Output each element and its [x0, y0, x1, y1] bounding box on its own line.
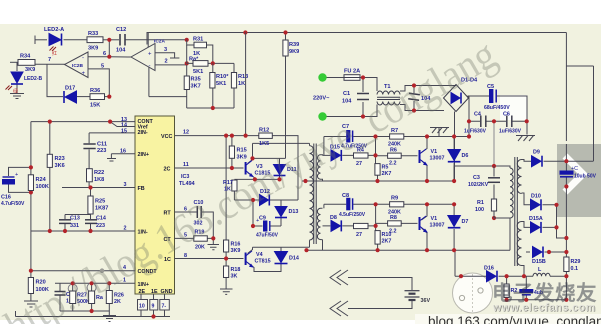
wire pin13 row [31, 121, 135, 123]
wire D11 stems [279, 158, 281, 179]
node rail C17 bottom [564, 184, 568, 188]
node D7 bottom rail [452, 248, 456, 252]
svg-text:IC2A: IC2A [154, 39, 165, 45]
diode D5 [331, 150, 341, 161]
wire pin14 diagonal [110, 122, 135, 127]
svg-text:15: 15 [121, 129, 127, 135]
node VCC c [244, 134, 248, 138]
svg-text:7-: 7- [162, 304, 167, 310]
node ground return [151, 314, 155, 318]
svg-text:4.5uF/250V: 4.5uF/250V [339, 212, 366, 218]
capacitor C8 [347, 198, 353, 210]
svg-text:GND: GND [161, 289, 173, 295]
resistor R26 [106, 291, 112, 304]
choke T1 top winding [377, 91, 400, 94]
pot circle R27 [68, 284, 77, 293]
connector chevron lower [330, 301, 348, 316]
svg-text:C14: C14 [96, 216, 106, 222]
node D6 bottom rail [452, 179, 456, 183]
wire bottom rail [305, 249, 510, 251]
svg-text:1E: 1E [151, 289, 158, 295]
top rail wire [147, 32, 567, 34]
wire bridge bottom drop [454, 112, 456, 182]
wire D14 stems [280, 247, 282, 268]
R39 stems [285, 33, 287, 159]
T2 secondary upper [517, 160, 521, 194]
resistor R5 [375, 164, 380, 176]
node D15B out [547, 250, 551, 254]
resistor R13 [231, 73, 236, 89]
svg-text:5K1: 5K1 [216, 81, 226, 87]
pin7 stem [164, 294, 166, 317]
node D12 row [251, 198, 255, 202]
svg-text:2.2: 2.2 [389, 229, 397, 235]
resistor R34 [18, 60, 35, 66]
ground hatch bridge [430, 128, 449, 134]
capacitor C6 [507, 116, 512, 128]
svg-text:R10*: R10* [216, 74, 229, 80]
wire live row [326, 78, 377, 92]
node C7 out [373, 134, 377, 138]
svg-text:CT815: CT815 [255, 259, 271, 265]
resistor R30 [504, 284, 509, 298]
svg-text:R24: R24 [36, 177, 47, 183]
node rail bottom left [304, 248, 308, 252]
wire V2 collector [422, 204, 428, 220]
node CT [211, 236, 215, 240]
wire R27 stem [72, 283, 74, 311]
node primary bottom [492, 216, 496, 220]
node 1IN- c [88, 229, 92, 233]
svg-text:223: 223 [96, 223, 105, 229]
svg-text:3K: 3K [231, 274, 238, 280]
svg-text:R31: R31 [193, 37, 203, 43]
T3 secondary upper stems [302, 155, 323, 181]
wire primary top row [253, 142, 310, 144]
diode D11 [274, 165, 286, 176]
svg-text:C5: C5 [487, 84, 494, 90]
svg-text:104: 104 [116, 48, 126, 54]
capacitor C13 [59, 220, 71, 224]
svg-text:C4: C4 [474, 112, 481, 118]
diode D12 [260, 195, 270, 206]
wire C11 stem bottom [88, 150, 90, 169]
wire V3 emitter [248, 173, 255, 180]
capacitor C17 [560, 171, 573, 177]
white circle stamp [453, 273, 493, 313]
wire primary bottom [509, 218, 511, 250]
right border step wire [565, 33, 567, 142]
wire Ra1 stem [91, 283, 93, 311]
node bottom row c [564, 298, 568, 302]
wire node6 vertical [108, 40, 110, 57]
pin10 stem [140, 294, 142, 317]
wire D15B row [526, 251, 566, 253]
wire R33 to C12 [103, 39, 119, 41]
battery BT [405, 291, 420, 300]
pin9 stem [153, 294, 155, 317]
svg-text:R16: R16 [231, 242, 241, 248]
resistor Ra1 [89, 291, 95, 304]
svg-text:10ub 50V: 10ub 50V [574, 174, 597, 180]
transistor V3 [246, 161, 253, 177]
resistor R17 [232, 180, 237, 191]
svg-text:5K1: 5K1 [193, 69, 203, 75]
resistor R20 [28, 278, 33, 294]
wire R12 right elbow [272, 136, 298, 200]
resistor R35 [184, 76, 189, 90]
diode D15A [531, 222, 542, 233]
resistor R4 [354, 153, 369, 158]
wire C19 stem [525, 276, 527, 300]
wire C12 to node [126, 39, 187, 41]
svg-text:R33: R33 [88, 31, 98, 37]
wire C4 C6 row [469, 120, 527, 122]
svg-text:www.elecfans.com: www.elecfans.com [492, 302, 596, 314]
svg-text:104: 104 [342, 99, 352, 105]
svg-text:2K7: 2K7 [382, 239, 392, 245]
bridge D1-D4 [444, 85, 469, 112]
diode D7 [448, 216, 461, 228]
wire pin15 row [89, 132, 135, 134]
resistor R39 [283, 40, 288, 56]
wire R6 row [376, 155, 418, 157]
node R5 rail [375, 179, 379, 183]
pin16 mini ground [107, 159, 116, 162]
wire C5 drop to hatch [526, 121, 528, 134]
node pin13 row right [108, 120, 112, 124]
svg-text:1uF/630V: 1uF/630V [464, 129, 487, 135]
node V1 collector top [425, 134, 429, 138]
wire V4 collector [248, 247, 253, 253]
wire battery top link [348, 278, 412, 291]
wire 1IN+ row [55, 282, 135, 284]
svg-text:C3: C3 [473, 175, 480, 181]
wire CT row [175, 237, 214, 239]
node C8 out [374, 202, 378, 206]
wire C13 stem bottom [64, 224, 66, 231]
wire bridge right drop [468, 96, 470, 137]
T3 primary stems [309, 143, 311, 247]
diode D13 [275, 207, 287, 218]
svg-text:220V~: 220V~ [313, 96, 330, 102]
svg-text:3K6: 3K6 [55, 163, 65, 169]
capacitor C1 [357, 94, 369, 100]
wire D15A row elbow [522, 222, 557, 228]
svg-text:R8: R8 [390, 215, 397, 221]
ground R18 [220, 289, 233, 294]
svg-text:红: 红 [52, 50, 57, 57]
node y108 [211, 106, 215, 110]
node primary top [492, 164, 496, 168]
svg-text:3K9: 3K9 [231, 248, 241, 254]
stamp hole A [459, 295, 464, 300]
bridge diode mark [451, 93, 461, 104]
wire secondary bottom drop [522, 266, 525, 277]
capacitor C5 [490, 90, 497, 103]
wire left rail x31 [30, 122, 32, 271]
svg-text:13007: 13007 [430, 156, 445, 162]
wire C7 row [324, 136, 376, 138]
resistor R4b [354, 223, 369, 228]
svg-text:102/2KV: 102/2KV [468, 182, 489, 188]
node D16 in [459, 274, 463, 278]
node R4 out [373, 153, 377, 157]
svg-text:C12: C12 [116, 27, 126, 33]
wire R18 stem [225, 259, 227, 289]
output rail [565, 144, 567, 300]
wire mid rail [302, 180, 454, 182]
node V2 emitter rail [425, 248, 429, 252]
capacitor C7 [347, 131, 353, 143]
wire R10 bottom stem [377, 244, 379, 250]
R35 stems [186, 65, 188, 108]
svg-text:-: - [82, 56, 84, 62]
wire rail up to primary [454, 166, 494, 181]
IC bottom pin box 7 [160, 300, 170, 311]
svg-text:R29: R29 [571, 259, 581, 265]
pin 3 ground bar [170, 57, 179, 59]
ground return wire [16, 316, 171, 318]
wire C13 link [65, 215, 91, 220]
svg-text:LED2-A: LED2-A [44, 27, 64, 33]
node rail A [243, 30, 247, 34]
T3 secondary upper [317, 155, 320, 179]
svg-text:R18: R18 [231, 267, 241, 273]
resistor R6 [388, 153, 402, 158]
wire primary top link [494, 166, 510, 168]
node FB [88, 185, 92, 189]
wire LED2-B to ground [16, 85, 18, 94]
R10 stems [212, 63, 214, 108]
R13 stems [233, 63, 235, 108]
resistor R8 [388, 221, 402, 226]
node C19 top [522, 274, 526, 278]
svg-text:D10: D10 [531, 194, 541, 200]
wire R16 drop [225, 136, 227, 259]
ground hatch C5 [516, 136, 535, 142]
IC IC3 TL494 body [135, 116, 175, 294]
svg-text:2K7: 2K7 [382, 171, 392, 177]
node R31 left [185, 38, 189, 42]
resistor R29 [564, 257, 569, 272]
node rail mid [564, 236, 568, 240]
transistor V2 [420, 216, 427, 232]
capacitor C3 [488, 178, 500, 183]
node R15 base [230, 166, 234, 170]
wire R23 stem [49, 122, 51, 231]
svg-text:2.2: 2.2 [389, 161, 397, 167]
wire collector node row [253, 157, 286, 159]
svg-text:D15B: D15B [532, 259, 546, 265]
resistor R10* [210, 73, 215, 89]
node D10 out [554, 203, 558, 207]
svg-text:+: + [15, 172, 18, 178]
capacitor C4 [481, 116, 486, 128]
wire RT row [175, 212, 214, 238]
node rail D15B [564, 250, 568, 254]
svg-text:R13: R13 [238, 74, 248, 80]
node C6 right [525, 119, 529, 123]
resistor R9 [390, 202, 404, 207]
capacitor C11 [83, 144, 95, 149]
wire R34 left [10, 61, 18, 63]
wire LED2-A to R33 [64, 39, 88, 41]
wire R15 stems [231, 136, 233, 168]
wire C7 drop [323, 137, 325, 156]
resistor R23 [47, 154, 52, 167]
svg-text:R9: R9 [391, 196, 398, 202]
resistor R36 [90, 94, 105, 100]
svg-text:2IN+: 2IN+ [138, 152, 150, 158]
wire top rail drop [146, 33, 148, 45]
choke T1 core [377, 97, 400, 99]
svg-text:3K7: 3K7 [191, 84, 201, 90]
T2 secondary lower [517, 222, 521, 266]
node junction 6 input [107, 55, 111, 59]
node C2 bottom [412, 108, 416, 112]
node 1IN- b [63, 229, 67, 233]
svg-text:R1: R1 [477, 200, 484, 206]
ground CT [208, 245, 220, 250]
inductor L [533, 273, 550, 276]
node C4 drop [467, 134, 471, 138]
svg-text:LED2-B: LED2-B [24, 76, 42, 82]
resistor R31 [194, 42, 207, 48]
svg-text:12: 12 [183, 130, 189, 136]
svg-text:R15: R15 [237, 148, 247, 154]
resistor R19 [194, 236, 208, 241]
T3 secondary lower [317, 208, 320, 239]
pin 3 wire [155, 53, 175, 58]
svg-text:IC2B: IC2B [72, 63, 83, 69]
resistor R25 [88, 196, 93, 214]
svg-text:1K8: 1K8 [94, 177, 104, 183]
svg-text:1IN+: 1IN+ [138, 282, 150, 288]
capacitor C15 [55, 292, 66, 296]
svg-text:R12: R12 [259, 128, 269, 134]
diode D6 [448, 150, 461, 162]
node R30 top [505, 274, 509, 278]
svg-text:C8: C8 [342, 193, 349, 199]
resistor R33 [87, 37, 103, 43]
svg-text:5: 5 [101, 64, 104, 70]
capacitor C12 [120, 34, 125, 46]
svg-text:D8: D8 [330, 215, 337, 221]
resistor R12 [259, 133, 273, 138]
wire HV drop [493, 121, 495, 166]
wire C15 stem [59, 283, 61, 311]
node 1IN+ b [90, 281, 94, 285]
node 1IN- a [48, 229, 52, 233]
svg-text:C1: C1 [343, 91, 350, 97]
svg-text:3K9: 3K9 [88, 46, 98, 52]
ground R26 [103, 316, 116, 322]
svg-text:TL494: TL494 [179, 181, 195, 187]
svg-text:D7: D7 [462, 219, 469, 225]
wire CT ground stem [212, 238, 214, 244]
transistor V4 [246, 251, 253, 267]
transformer T3 primary winding [310, 146, 314, 240]
node bottom row a [505, 298, 509, 302]
node link row [90, 309, 94, 313]
node C9 left [251, 224, 255, 228]
wire D9 row [522, 160, 594, 162]
node Ra right [211, 61, 215, 65]
wire C14 stem bottom [90, 224, 92, 231]
svg-text:1K: 1K [238, 81, 245, 87]
wire base row upper [323, 154, 376, 156]
wire C8 row [324, 203, 376, 205]
svg-text:V4: V4 [256, 252, 263, 258]
wire T1 to bridge bottom [400, 105, 444, 111]
node 1IN+ a [71, 281, 75, 285]
wire C1 stem [362, 78, 364, 117]
capacitor C14 [85, 220, 97, 224]
svg-text:100: 100 [475, 207, 484, 213]
node rail D16 [564, 274, 568, 278]
svg-text:1K5: 1K5 [259, 141, 269, 147]
node rail B [283, 30, 287, 34]
svg-text:R23: R23 [55, 156, 65, 162]
diode D16 [487, 271, 498, 282]
wire R7 to V1 node [376, 136, 470, 138]
wire 1IN- row [31, 230, 135, 232]
resistor R15 [229, 146, 234, 158]
node pin13 row left [48, 120, 52, 124]
svg-text:V1: V1 [431, 216, 438, 222]
svg-text:VCC: VCC [161, 134, 172, 140]
node VCC a [224, 134, 228, 138]
svg-text:13007: 13007 [430, 223, 445, 229]
diode D17 [64, 91, 77, 103]
wire rail down to D16 row [454, 250, 456, 276]
wire secondary lower bottom elbow [322, 240, 324, 251]
svg-text:D14: D14 [289, 256, 299, 262]
wire VCC row [175, 135, 259, 137]
svg-text:68uF/450V: 68uF/450V [484, 105, 510, 111]
wire bottom link row [60, 311, 109, 315]
IC bottom pin box 9 [150, 300, 158, 311]
svg-text:36V: 36V [421, 298, 431, 304]
resistor R22 [87, 169, 93, 182]
node D15A out [554, 225, 558, 229]
node V3 collector [250, 156, 254, 160]
node R4b out [374, 224, 378, 228]
svg-text:27: 27 [356, 232, 362, 238]
wire 1C row [175, 258, 244, 260]
wire C16 branch bottom [9, 185, 31, 193]
wire rail drop to VCC [245, 33, 247, 136]
wire node2 vertical [186, 45, 188, 63]
svg-text:15K: 15K [90, 103, 100, 109]
svg-text:9K9: 9K9 [289, 49, 299, 55]
wire D13 stems [280, 200, 282, 226]
wire D10 row elbow [522, 193, 567, 238]
wire V3 collector [248, 143, 253, 163]
IC2A bottom stem [148, 67, 150, 97]
resistor R1 [491, 199, 496, 211]
pin 2 wire [155, 64, 187, 66]
svg-text:1K87: 1K87 [95, 206, 108, 212]
capacitor C2 [408, 93, 420, 100]
wire R31 elbow [187, 40, 194, 45]
svg-text:R6: R6 [390, 148, 397, 154]
wire battery bottom link [348, 301, 412, 309]
wire C9 left vertical [252, 200, 254, 226]
svg-text:4.7uF/50V: 4.7uF/50V [1, 201, 25, 207]
wire R8 row [376, 222, 418, 224]
